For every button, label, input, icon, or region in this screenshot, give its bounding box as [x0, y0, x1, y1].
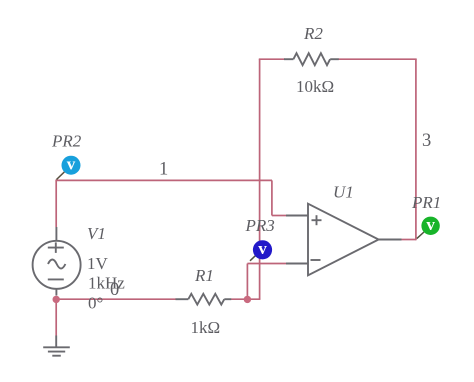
V1 value 0 deg: [88, 294, 103, 313]
probe PR2 label: [51, 132, 82, 151]
V1 value 1kHz: [88, 274, 125, 293]
R2 value 10kOhm: [296, 77, 334, 96]
probe PR3 leader: [250, 254, 257, 261]
wire net2 long vertical from R2 left down to bottom wire: [259, 59, 261, 299]
probe PR1 label: [411, 193, 441, 212]
probe PR2 leader: [57, 172, 65, 180]
R2 label: [303, 24, 323, 43]
svg-text:10kΩ: 10kΩ: [296, 77, 334, 96]
ground: [43, 336, 70, 356]
wire net3 output horizontal: [401, 239, 416, 241]
wire net0 vertical V1 bottom to ground: [55, 299, 57, 335]
probe PR3 label: [245, 216, 275, 235]
op-amp U1: [286, 204, 402, 276]
svg-text:v: v: [258, 239, 267, 258]
wire net2 vertical branch to minus input: [246, 264, 248, 300]
junction dot at V1 minus node: [53, 296, 60, 303]
svg-text:1kHz: 1kHz: [88, 274, 125, 293]
V1 value 1V: [87, 254, 109, 273]
wire net0 bottom horizontal V1 to R1: [56, 298, 176, 300]
svg-text:R2: R2: [303, 24, 323, 43]
probe PR1 leader: [417, 232, 424, 239]
wire net1 vertical jog down to op-amp plus input: [271, 180, 273, 215]
svg-text:1: 1: [159, 160, 168, 180]
wire net3 right vertical: [415, 59, 417, 240]
wire net3 top horizontal right of R2: [339, 58, 417, 60]
wire net1 horizontal into plus input: [272, 215, 286, 217]
U1 label: [333, 183, 354, 202]
net label 0: [110, 280, 119, 300]
wire net2 top horizontal left of R2: [259, 58, 285, 60]
wire net1 horizontal top-left: [55, 179, 272, 181]
svg-text:PR2: PR2: [51, 132, 82, 151]
svg-text:R1: R1: [194, 266, 214, 285]
svg-text:1V: 1V: [87, 254, 109, 273]
svg-text:v: v: [67, 154, 76, 173]
wire net1 vertical from PR2 corner to V1 top: [55, 180, 57, 227]
wire net2 horizontal into minus input: [247, 263, 286, 265]
svg-text:V1: V1: [87, 224, 106, 243]
svg-text:v: v: [426, 215, 435, 234]
resistor R1: [176, 294, 232, 305]
probe PR1: [421, 215, 439, 235]
probe PR3: [253, 239, 272, 259]
svg-text:PR3: PR3: [245, 216, 275, 235]
svg-text:0°: 0°: [88, 294, 103, 313]
R1 label: [194, 266, 214, 285]
probe PR2: [62, 154, 81, 174]
net label 1: [159, 160, 168, 180]
wire net2 bottom horizontal R1 to corner: [231, 298, 260, 300]
svg-text:0: 0: [110, 280, 119, 300]
svg-text:PR1: PR1: [411, 193, 441, 212]
resistor R2: [284, 53, 339, 65]
V1 label: [87, 224, 106, 243]
R1 value 1kOhm: [191, 318, 221, 337]
AC source V1: [33, 227, 81, 296]
net label 3: [422, 131, 431, 151]
junction dot at R1 right node: [244, 296, 251, 303]
svg-text:1kΩ: 1kΩ: [191, 318, 221, 337]
svg-text:U1: U1: [333, 183, 354, 202]
svg-text:3: 3: [422, 131, 431, 151]
